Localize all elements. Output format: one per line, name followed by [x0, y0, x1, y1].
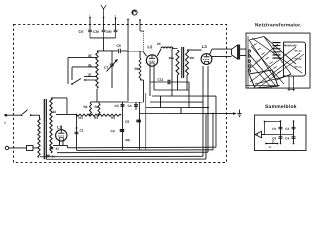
svg-text:36: 36	[88, 63, 92, 67]
svg-text:C30: C30	[93, 30, 99, 34]
svg-text:R2: R2	[94, 105, 98, 109]
svg-text:C5: C5	[125, 120, 129, 124]
svg-text:32: 32	[52, 110, 56, 114]
svg-text:C4: C4	[285, 136, 289, 140]
svg-text:C2: C2	[110, 129, 114, 133]
svg-text:37: 37	[88, 73, 92, 77]
svg-text:38a: 38a	[169, 56, 174, 60]
svg-text:C1: C1	[79, 128, 83, 132]
svg-text:C5: C5	[272, 127, 276, 131]
svg-text:C6: C6	[117, 44, 121, 48]
svg-text:R5: R5	[125, 138, 129, 142]
svg-text:Sammelblok: Sammelblok	[265, 104, 297, 110]
svg-text:04: 04	[299, 66, 302, 69]
svg-text:220: 220	[256, 60, 261, 63]
svg-text:24: 24	[157, 42, 161, 46]
svg-text:C4: C4	[79, 30, 84, 34]
svg-text:44: 44	[299, 58, 302, 61]
svg-text:41: 41	[268, 146, 271, 149]
svg-text:Netztransformator.: Netztransformator.	[255, 22, 302, 27]
svg-text:C3: C3	[114, 104, 118, 108]
svg-text:R3: R3	[94, 116, 98, 120]
svg-text:64: 64	[299, 50, 302, 53]
svg-text:311: 311	[78, 116, 83, 120]
svg-text:R6: R6	[135, 67, 139, 71]
svg-text:R1: R1	[83, 105, 87, 109]
svg-text:R4: R4	[111, 116, 115, 120]
svg-text:35: 35	[88, 54, 92, 58]
svg-text:L2: L2	[148, 44, 153, 49]
svg-text:C11: C11	[158, 78, 164, 82]
svg-text:33: 33	[55, 147, 59, 151]
svg-text:C7: C7	[104, 66, 108, 70]
svg-text:300: 300	[106, 30, 112, 34]
svg-text:L3: L3	[202, 44, 207, 49]
svg-text:Netztrafo: Netztrafo	[284, 43, 297, 47]
svg-text:C3: C3	[285, 127, 289, 131]
svg-text:C4: C4	[127, 104, 131, 108]
svg-text:2M: 2M	[190, 56, 195, 60]
